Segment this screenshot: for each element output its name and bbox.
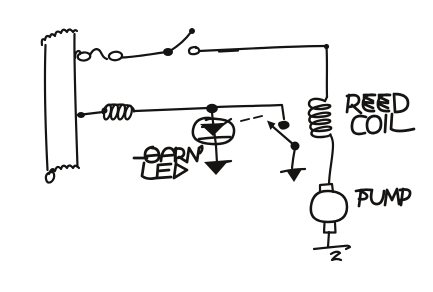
reed switch S2 top contact (278, 121, 290, 130)
label WARN (134, 146, 202, 162)
ground (LED) arrow (204, 160, 229, 175)
label PUMP (356, 189, 410, 206)
pump motor M1 bottom terminal (324, 223, 336, 233)
LED D1 circle (193, 118, 234, 144)
wire: switch to arrow (292, 148, 295, 168)
inductor L1 (reed coil) (309, 99, 331, 137)
wire: battery middle stub (77, 112, 85, 118)
arrow to ground (reed switch) (281, 169, 305, 172)
switch S1 pole contact (163, 48, 173, 56)
label REED (347, 94, 408, 113)
wire: pump to ground (328, 232, 329, 247)
wire: coil to pump (325, 97, 333, 184)
wire: junction to reed switch corner (217, 105, 281, 107)
switch S1 throw contact (189, 47, 199, 54)
resistor R1 (squiggle) (102, 108, 108, 114)
wire: corner stub down (282, 105, 284, 119)
LED D1 cathode bar (199, 137, 230, 139)
wire: top horizontal to right corner (199, 46, 326, 51)
battery B1 (supply rail rectangle) (42, 30, 79, 183)
label LED (142, 163, 187, 179)
wire: right vertical down to coil (325, 47, 328, 97)
mechanical link (dashed) (241, 116, 262, 121)
LED D1 anode triangle (200, 123, 226, 136)
label COIL (352, 114, 414, 134)
ground (pump) (314, 246, 350, 249)
reed switch S2 blade with arrowhead (272, 126, 294, 145)
pump motor M1 top terminal (320, 184, 333, 192)
wire: resistor to LED junction (135, 108, 208, 111)
node: LED junction (206, 104, 218, 114)
reed switch S2 common contact (291, 142, 300, 151)
wire: LED to ground (216, 146, 217, 163)
node: top-right corner (324, 44, 329, 49)
switch S1 blade (open, up-right) (170, 32, 191, 51)
pump motor M1 body (311, 191, 347, 222)
wire: junction through LED (212, 112, 216, 146)
wire: battery top stub with curl (75, 49, 163, 61)
